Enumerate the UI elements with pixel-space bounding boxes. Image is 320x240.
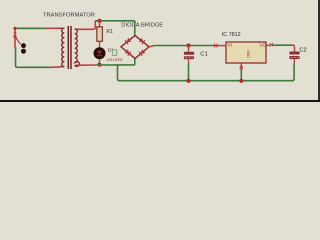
svg-text:DIODA BRIDGE: DIODA BRIDGE <box>121 22 163 28</box>
svg-text:LED-RED: LED-RED <box>107 58 124 62</box>
svg-text:TRANSFORMATOR: TRANSFORMATOR <box>43 13 95 19</box>
svg-text:C1: C1 <box>200 51 208 57</box>
svg-text:VO: VO <box>259 43 266 48</box>
svg-text:GND: GND <box>246 50 250 59</box>
svg-text:VI: VI <box>228 43 232 48</box>
svg-text:C2: C2 <box>299 47 306 53</box>
svg-text:IC 7812: IC 7812 <box>222 32 241 38</box>
svg-text:R1: R1 <box>106 29 113 35</box>
